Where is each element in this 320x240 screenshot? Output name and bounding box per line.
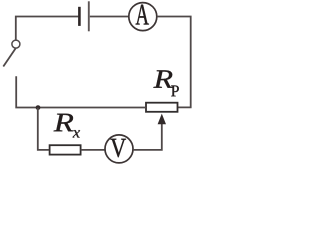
label RP: subscript P: [171, 86, 179, 97]
label Rx: R: [54, 114, 74, 132]
wiper arrowhead: [158, 114, 166, 125]
wire battery to ammeter: [90, 16, 129, 18]
wire ammeter to top-right corner down to rheostat: [157, 17, 191, 108]
switch S pivot circle: [12, 40, 20, 48]
label RP: R: [153, 70, 172, 87]
ammeter U1 circle: [129, 3, 157, 31]
junction node dot: [36, 105, 41, 110]
resistor Rx box: [50, 145, 81, 154]
wire junction down to Rx: [38, 108, 49, 150]
wire top-left corner to battery: [16, 17, 79, 41]
middle wire: lower-left vertical and run to rheostat: [16, 76, 146, 107]
ammeter letter A: [136, 5, 149, 25]
voltmeter letter V: [110, 139, 126, 158]
voltmeter U2 circle: [105, 135, 133, 163]
wire voltmeter right up to wiper: [133, 118, 162, 150]
wire Rx to voltmeter: [81, 149, 105, 151]
switch blade (open): [3, 48, 15, 66]
battery negative plate (short thick): [78, 7, 81, 26]
label Rx: subscript x: [73, 130, 80, 137]
rheostat RP box: [146, 103, 178, 112]
battery positive plate (long thin): [88, 1, 90, 31]
